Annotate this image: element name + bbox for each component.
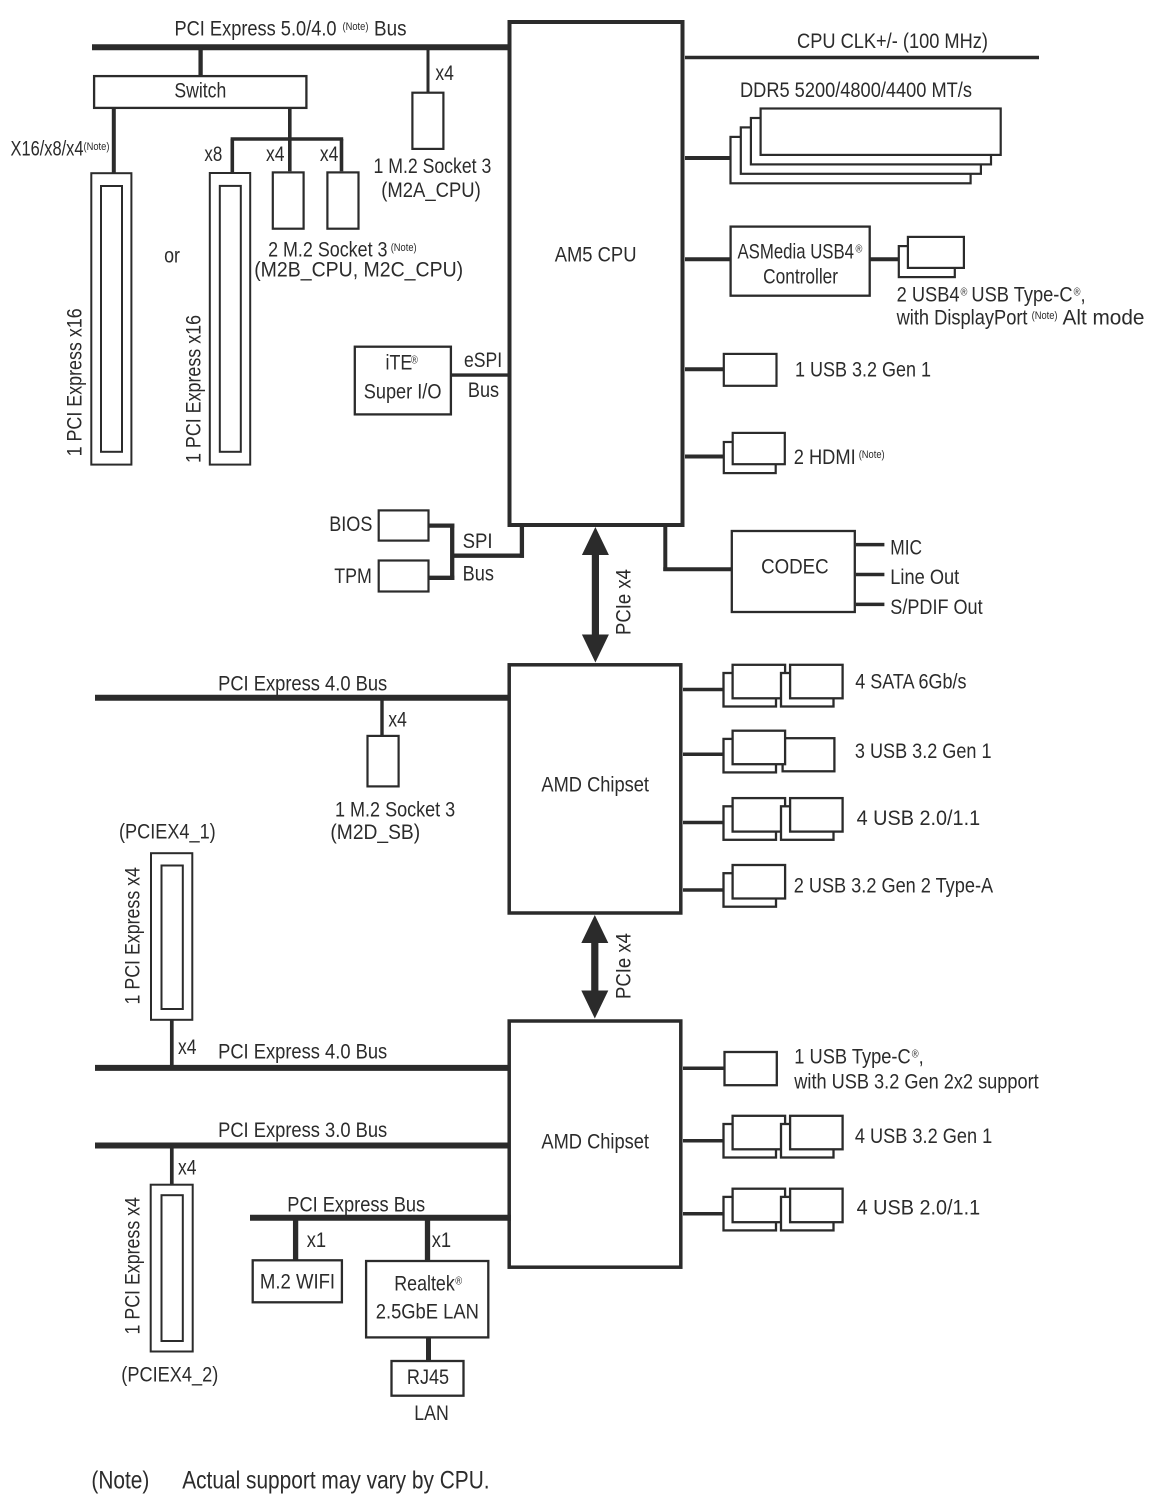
- box: CODEC: [732, 531, 855, 612]
- svg-text:Bus: Bus: [374, 18, 407, 41]
- wire: SPI bus horizontal: [451, 554, 525, 558]
- wire: Switch to branch / M2B: [288, 108, 292, 171]
- svg-text:with USB 3.2 Gen 2x2 support: with USB 3.2 Gen 2x2 support: [793, 1070, 1039, 1094]
- connector: M.2 socket M2C_CPU: [327, 172, 358, 228]
- wire: CODEC MIC stub: [856, 543, 884, 547]
- svg-text:(PCIEX4_1): (PCIEX4_1): [119, 820, 216, 844]
- svg-text:®: ®: [856, 244, 863, 256]
- bus PCI Express (bottom): [250, 1215, 511, 1221]
- svg-text:PCI Express 3.0 Bus: PCI Express 3.0 Bus: [218, 1119, 387, 1142]
- wire: Switch to PCI Express x16 slot 1: [112, 108, 116, 173]
- box: TPM: [379, 561, 429, 592]
- wire: bus to M2D: [380, 697, 383, 735]
- svg-text:2 USB4: 2 USB4: [897, 283, 960, 306]
- svg-text:,: ,: [919, 1045, 924, 1068]
- label: X16/x8/x4 (Note): [11, 137, 110, 160]
- svg-text:x1: x1: [432, 1229, 451, 1252]
- label: Realtek(R): [394, 1272, 462, 1296]
- svg-text:LAN: LAN: [414, 1402, 448, 1426]
- svg-text:1 M.2 Socket 3: 1 M.2 Socket 3: [374, 155, 492, 179]
- svg-text:Line Out: Line Out: [890, 566, 959, 589]
- svg-text:1 PCI Express x16: 1 PCI Express x16: [63, 308, 87, 456]
- svg-text:(M2D_SB): (M2D_SB): [330, 821, 420, 844]
- svg-text:(Note): (Note): [91, 1466, 149, 1494]
- svg-text:1 PCI Express x4: 1 PCI Express x4: [121, 867, 145, 1005]
- wire: bus to M.2 WIFI: [293, 1220, 298, 1260]
- box: Realtek 2.5GbE LAN U-LAN: [366, 1261, 488, 1337]
- svg-text:DDR5 5200/4800/4400 MT/s: DDR5 5200/4800/4400 MT/s: [740, 79, 972, 102]
- wire: CPU to DDR5: [685, 156, 731, 160]
- wire: chipset to 2 USB 3.2 Gen 2 Type-A: [683, 888, 725, 892]
- svg-text:x4: x4: [388, 709, 407, 732]
- svg-text:®: ®: [961, 287, 968, 299]
- label: 2 M.2 Socket 3 (Note): [268, 238, 417, 262]
- connector: M.2 socket M2D_SB: [368, 736, 399, 787]
- wire: SPI bracket vertical: [450, 524, 454, 581]
- connector: PCI Express x16 slot 2 (outer): [210, 173, 250, 465]
- label: ASMedia USB4(R): [738, 241, 863, 264]
- connector: USB 3.2 pair A (lower): [724, 1116, 786, 1158]
- box: iTE Super I/O U-ITE: [355, 347, 451, 415]
- svg-text:M.2 WIFI: M.2 WIFI: [260, 1270, 335, 1293]
- svg-text:with DisplayPort: with DisplayPort: [896, 306, 1028, 329]
- wire: TPM to SPI bracket: [429, 576, 455, 580]
- connector: SATA pair A: [724, 665, 786, 707]
- connector: M.2 socket M2A_CPU: [412, 93, 443, 149]
- label: PCI Express 5.0/4.0 (Note) Bus: [175, 17, 407, 40]
- svg-text:AMD Chipset: AMD Chipset: [541, 773, 649, 796]
- box: RJ45: [392, 1361, 464, 1396]
- svg-text:or: or: [164, 244, 180, 268]
- svg-text:Super I/O: Super I/O: [364, 380, 442, 404]
- wire: bus to Switch: [198, 47, 202, 77]
- svg-text:(Note): (Note): [391, 242, 417, 254]
- wire: PCIEX4_1 to bus: [170, 1020, 174, 1066]
- svg-text:3 USB 3.2 Gen 1: 3 USB 3.2 Gen 1: [855, 740, 992, 764]
- wire: chipset to SATA connectors: [683, 688, 725, 692]
- svg-text:AMD Chipset: AMD Chipset: [541, 1130, 649, 1153]
- svg-text:eSPI: eSPI: [464, 349, 502, 373]
- wire: BIOS to SPI bracket: [429, 523, 455, 527]
- wire: CPU CLK+/- (100 MHz): [685, 56, 1039, 60]
- svg-text:(Note): (Note): [84, 142, 110, 154]
- svg-text:2 HDMI: 2 HDMI: [794, 446, 856, 469]
- svg-text:2.5GbE LAN: 2.5GbE LAN: [376, 1301, 479, 1324]
- chipset box: AMD Chipset (lower): [509, 1021, 681, 1267]
- connector: 2 USB 3.2 Gen 2 Type-A pair: [724, 865, 786, 907]
- svg-text:CODEC: CODEC: [761, 555, 829, 578]
- svg-text:ASMedia USB4: ASMedia USB4: [738, 241, 855, 264]
- svg-text:SPI: SPI: [463, 530, 493, 553]
- svg-text:Bus: Bus: [468, 379, 499, 403]
- CPU box: AM5 CPU: [510, 22, 683, 525]
- svg-text:(M2B_CPU, M2C_CPU): (M2B_CPU, M2C_CPU): [254, 259, 463, 282]
- connector: PCI Express x4 slot PCIEX4_2 (inner): [162, 1195, 183, 1341]
- svg-text:BIOS: BIOS: [329, 513, 372, 537]
- svg-text:x4: x4: [178, 1037, 197, 1060]
- svg-text:S/PDIF Out: S/PDIF Out: [890, 596, 983, 620]
- svg-text:x4: x4: [320, 144, 339, 167]
- svg-text:1 USB Type-C: 1 USB Type-C: [794, 1045, 910, 1068]
- svg-text:iTE: iTE: [386, 351, 413, 375]
- wire: ASMedia to USB4 ports: [870, 257, 898, 261]
- connector: DDR5 DIMM slots (stack of 4): [731, 109, 1001, 184]
- wire: bus to Realtek LAN: [425, 1220, 430, 1261]
- box: ASMedia USB4 Controller U-ASM: [731, 227, 870, 296]
- svg-text:Alt mode: Alt mode: [1063, 307, 1145, 330]
- wire: chipset to 3 USB 3.2 Gen 1: [683, 753, 725, 757]
- wire: chipset to 4 USB 3.2 Gen 1: [683, 1139, 725, 1143]
- bus PCI Express 3.0: [95, 1143, 511, 1149]
- wire: CPU to ASMedia USB4 controller: [685, 257, 731, 261]
- label: 1 USB Type-C(R),: [794, 1045, 923, 1068]
- svg-text:®: ®: [411, 355, 418, 367]
- svg-text:1 PCI Express x16: 1 PCI Express x16: [182, 315, 206, 463]
- svg-text:AM5 CPU: AM5 CPU: [555, 243, 637, 266]
- svg-text:RJ45: RJ45: [407, 1366, 449, 1390]
- label: 2 HDMI (Note): [794, 446, 885, 469]
- wire: CPU to CODEC (horizontal): [663, 567, 731, 571]
- wire: CPU to USB 3.2 Gen 1 port: [685, 367, 724, 371]
- svg-text:x4: x4: [266, 144, 285, 167]
- connector: 2 USB4 Type-C ports (stack): [899, 237, 964, 277]
- box: M.2 WIFI: [253, 1260, 342, 1302]
- svg-text:(Note): (Note): [343, 21, 369, 33]
- connector: SATA pair B: [781, 665, 843, 707]
- wire: CPU down to CODEC (vertical): [663, 527, 667, 571]
- svg-text:PCI Express Bus: PCI Express Bus: [287, 1193, 425, 1216]
- connector: USB 2.0 pair A (upper): [724, 798, 786, 840]
- svg-text:PCIe x4: PCIe x4: [612, 933, 635, 999]
- svg-text:Bus: Bus: [463, 562, 494, 586]
- svg-text:PCI Express 4.0 Bus: PCI Express 4.0 Bus: [218, 672, 387, 695]
- wire: CODEC S/PDIF Out stub: [856, 603, 884, 607]
- box: BIOS: [379, 510, 429, 540]
- svg-text:Switch: Switch: [174, 79, 226, 103]
- svg-text:x4: x4: [178, 1157, 197, 1180]
- label: 2 USB4(R) USB Type-C(R),: [897, 283, 1086, 306]
- wire: Realtek to RJ45: [426, 1337, 431, 1361]
- wire: eSPI bus iTE to CPU: [451, 373, 509, 376]
- connector: USB 3.2 pair B (lower): [781, 1116, 843, 1158]
- wire: chipset to 4 USB 2.0/1.1 (upper): [683, 821, 725, 825]
- svg-text:x8: x8: [204, 143, 222, 166]
- wire: bus to M2A: [427, 47, 430, 92]
- svg-text:1 PCI Express x4: 1 PCI Express x4: [121, 1197, 145, 1335]
- connector: PCI Express x4 slot PCIEX4_1 (outer): [151, 853, 192, 1020]
- bus PCI Express 5.0/4.0 (Note) Bus: [92, 44, 511, 50]
- connector: PCI Express x4 slot PCIEX4_1 (inner): [162, 866, 183, 1010]
- wire: chipset to USB Type-C port: [683, 1066, 726, 1070]
- svg-text:(M2A_CPU): (M2A_CPU): [381, 179, 480, 202]
- wire: branch to M2C: [340, 139, 344, 171]
- connector: USB 3.2 Gen 1 port: [724, 354, 777, 386]
- wire: CPU to HDMI ports: [685, 455, 724, 459]
- wire: SPI bus to CPU: [520, 525, 524, 558]
- svg-text:,: ,: [1081, 283, 1086, 306]
- connector: USB 2.0 pair B (upper): [781, 798, 843, 840]
- wire: CODEC Line Out stub: [856, 573, 884, 577]
- label: with DisplayPort (Note) Alt mode: [896, 306, 1145, 329]
- svg-text:TPM: TPM: [334, 565, 372, 589]
- svg-text:PCI Express 5.0/4.0: PCI Express 5.0/4.0: [175, 17, 337, 40]
- arrow: PCIe x4 CPU to AMD Chipset (bidirectional): [582, 527, 609, 663]
- svg-text:CPU CLK+/- (100 MHz): CPU CLK+/- (100 MHz): [797, 30, 988, 53]
- svg-text:(Note): (Note): [1032, 310, 1058, 322]
- svg-text:x4: x4: [435, 63, 454, 86]
- label: iTE(R): [386, 351, 419, 375]
- connector: USB 2.0 pair B (lower): [781, 1189, 843, 1231]
- bus PCI Express 4.0 (upper): [95, 695, 511, 701]
- svg-text:PCI Express 4.0 Bus: PCI Express 4.0 Bus: [218, 1041, 387, 1064]
- svg-text:4 USB 3.2 Gen 1: 4 USB 3.2 Gen 1: [855, 1125, 992, 1149]
- svg-text:1 M.2 Socket 3: 1 M.2 Socket 3: [335, 798, 455, 822]
- wire: bus 3.0 to PCIEX4_2: [170, 1148, 174, 1185]
- svg-text:Actual support may vary by CPU: Actual support may vary by CPU.: [182, 1466, 489, 1494]
- connector: PCI Express x4 slot PCIEX4_2 (outer): [151, 1185, 193, 1352]
- arrow: PCIe x4 chipset to chipset (bidirectional): [581, 915, 608, 1019]
- svg-text:X16/x8/x4: X16/x8/x4: [11, 137, 84, 160]
- svg-text:(Note): (Note): [859, 449, 885, 461]
- svg-text:x1: x1: [307, 1229, 326, 1252]
- connector: 3 USB 3.2 Gen 1 group: [724, 731, 835, 773]
- svg-text:4 USB 2.0/1.1: 4 USB 2.0/1.1: [857, 1197, 981, 1220]
- connector: PCI Express x16 slot 1 (outer): [91, 173, 131, 464]
- svg-text:4 USB 2.0/1.1: 4 USB 2.0/1.1: [857, 808, 981, 831]
- svg-text:USB Type-C: USB Type-C: [971, 283, 1072, 306]
- svg-text:Controller: Controller: [763, 266, 838, 289]
- svg-text:1 USB 3.2 Gen 1: 1 USB 3.2 Gen 1: [795, 358, 931, 382]
- svg-text:MIC: MIC: [890, 537, 922, 560]
- bus PCI Express 4.0 (lower): [95, 1065, 511, 1071]
- wire: branch to PCI Express x16 slot 2: [231, 139, 235, 173]
- svg-text:PCIe x4: PCIe x4: [612, 569, 635, 635]
- svg-text:(PCIEX4_2): (PCIEX4_2): [121, 1363, 218, 1387]
- connector: USB Type-C port: [725, 1052, 777, 1085]
- connector: PCI Express x16 slot 2 (inner): [220, 186, 241, 452]
- wire: branch horizontal: [231, 137, 344, 141]
- svg-text:2 USB 3.2 Gen 2 Type-A: 2 USB 3.2 Gen 2 Type-A: [794, 874, 994, 898]
- svg-text:Realtek: Realtek: [394, 1272, 455, 1296]
- connector: USB 2.0 pair A (lower): [724, 1189, 786, 1231]
- connector: 2 HDMI ports (stack): [724, 433, 785, 473]
- connector: PCI Express x16 slot 1 (inner): [101, 186, 122, 452]
- chipset box: AMD Chipset (upper): [509, 665, 681, 913]
- connector: M.2 socket M2B_CPU: [273, 172, 304, 228]
- svg-text:4 SATA 6Gb/s: 4 SATA 6Gb/s: [855, 670, 966, 694]
- svg-text:®: ®: [455, 1276, 462, 1288]
- wire: chipset to 4 USB 2.0/1.1 (lower): [683, 1212, 725, 1216]
- switch box: [94, 76, 306, 108]
